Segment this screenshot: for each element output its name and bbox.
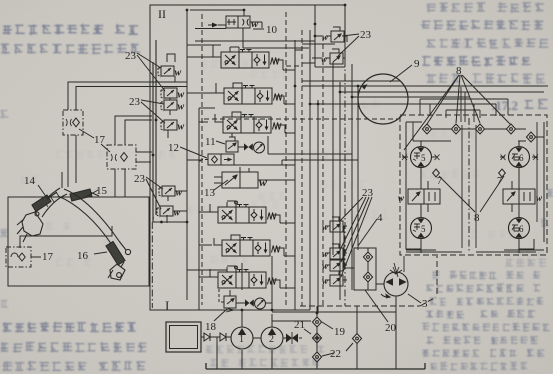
wire x187 <box>186 10 188 300</box>
ghost bleed 10 <box>20 175 38 184</box>
ghost bleed 9 <box>56 151 105 159</box>
ghost text BR6 <box>426 336 538 344</box>
line y92 <box>340 91 544 93</box>
ghost text TR3 <box>427 38 549 48</box>
leader 16 <box>94 252 107 254</box>
ghost text LE1 <box>0 111 8 119</box>
relief valve 18 <box>219 288 236 312</box>
check diamond bm2 <box>499 169 506 177</box>
ghost bleed x201 <box>45 222 70 230</box>
check diamond d4 <box>356 306 358 369</box>
ghost text BR2 <box>426 284 540 293</box>
ghost text RM5 <box>541 218 549 227</box>
ghost text RM4 <box>505 258 546 266</box>
wire pump1 riser <box>241 263 243 327</box>
ghost bleed 5 <box>350 211 389 220</box>
ghost text BM1 <box>206 345 325 354</box>
pilot valve p3 <box>161 100 185 113</box>
ghost text LE3 <box>0 229 8 236</box>
ghost text RM2 <box>0 0 1 1</box>
valve VA <box>221 50 279 69</box>
ghost bleed x301 <box>159 150 195 159</box>
ghost text LE4 <box>1 300 8 307</box>
ghost bleed 6 <box>331 100 380 109</box>
manifold line y312 <box>272 311 396 313</box>
dashdot left low <box>151 222 153 308</box>
check diamond rb4 <box>506 124 515 134</box>
right box top nested pipes <box>420 87 508 122</box>
ghost text BR1 <box>432 271 540 280</box>
gauge top <box>254 142 265 153</box>
ghost text TL2 <box>1 43 140 54</box>
pilot valve p6 <box>157 206 181 219</box>
travel motor R top <box>500 147 538 168</box>
line y154 to right <box>268 136 352 154</box>
tank drop <box>217 296 396 369</box>
wire p-column joins <box>167 54 187 223</box>
ghost bleed x203 <box>103 238 121 246</box>
swing motor 3 <box>381 263 408 298</box>
ghost bleed 11 <box>200 60 250 69</box>
valve block outer box <box>150 5 345 310</box>
excavator boom <box>17 188 131 280</box>
d2 cross <box>314 335 321 342</box>
ghost text BR8 <box>430 362 527 370</box>
wire x358 <box>357 86 359 250</box>
leader 19 <box>322 322 333 329</box>
wire x199 <box>198 108 200 310</box>
fan 23L1 <box>137 53 165 91</box>
ghost bleed 7 <box>460 40 507 49</box>
dashed jog <box>286 65 302 67</box>
wire q feeds <box>302 5 345 67</box>
label 10 <box>250 24 278 36</box>
leader 11 <box>216 141 225 144</box>
ghost bleed 3 <box>470 230 526 238</box>
ghost bleed x302 <box>187 206 226 214</box>
ghost text BL3 <box>3 361 146 371</box>
motor3 wires <box>376 283 384 285</box>
valve VD stubs <box>210 201 280 223</box>
valve 13 <box>214 167 268 189</box>
ghost bleed x305 <box>250 70 289 79</box>
leader 3 <box>408 294 421 303</box>
brake valve L <box>398 168 440 218</box>
brake valve R <box>503 168 543 218</box>
boom cylinder 14 <box>32 195 51 212</box>
valve VE stubs <box>214 235 284 256</box>
ghost text BM2 <box>210 358 320 367</box>
leader 13 <box>214 180 228 190</box>
pilot valve m4 <box>322 271 347 286</box>
wire x352 <box>351 64 353 290</box>
ghost text TR2 <box>421 20 543 30</box>
valve VA stubs <box>213 45 283 70</box>
supply line x156 <box>155 40 157 215</box>
leader 4 <box>358 219 377 246</box>
return line bottom <box>206 363 425 369</box>
ghost bleed 4 <box>430 131 476 139</box>
ghost text RM1 <box>0 0 1 1</box>
fan 8 mid <box>439 176 504 212</box>
ghost text BR7 <box>422 349 544 358</box>
wire top to q1 <box>308 5 345 8</box>
travel motor R bottom <box>509 218 530 239</box>
gauge bottom <box>255 298 266 309</box>
leader 14 <box>38 185 47 198</box>
pilot valve m1 <box>322 217 347 232</box>
check diamond d4b <box>352 334 361 344</box>
valve VC stubs <box>215 112 285 133</box>
ghost text BL2 <box>0 342 146 352</box>
excavator box <box>8 197 149 286</box>
line y104 <box>310 103 462 105</box>
travel motor L bottom <box>411 218 432 239</box>
check diamond rb1 <box>422 124 431 134</box>
wire 17b drop <box>61 172 63 188</box>
pilot valve p2 <box>161 88 185 101</box>
valve VC <box>223 115 281 134</box>
ghost bleed x303 <box>258 192 287 201</box>
coupler b <box>220 333 226 341</box>
bucket left <box>17 212 43 242</box>
leader 17 top <box>79 129 110 152</box>
valve feed wires left bus <box>187 45 227 277</box>
circle 9 <box>358 74 408 124</box>
valve 12 block <box>198 154 234 165</box>
valve V10 <box>208 10 262 30</box>
ghost bleed 0 <box>301 150 351 159</box>
ghost text BR5 <box>422 323 550 331</box>
check diamond bm1 <box>433 169 440 177</box>
wire x295 <box>294 40 296 310</box>
wire 11 to gauge <box>238 146 254 148</box>
ghost bleed x304 <box>210 255 249 263</box>
leader 17 bottom <box>31 256 41 258</box>
stick cylinder 15 <box>70 189 92 201</box>
valve block inner top line <box>190 10 315 48</box>
bucket 2 <box>108 264 125 280</box>
right box inner verticals <box>406 122 537 252</box>
subplate wires <box>344 226 368 290</box>
dash-dot column x345 <box>344 60 346 306</box>
ghost text BR4 <box>426 310 535 319</box>
check diamond rb5 <box>526 132 535 142</box>
pump link <box>253 337 261 339</box>
ghost bleed 8 <box>505 249 544 257</box>
leader 21 <box>304 329 311 334</box>
line y97 <box>352 96 470 98</box>
leader 9 <box>390 65 412 82</box>
right box dashed <box>400 115 547 255</box>
fan 23TR <box>338 34 359 56</box>
ghost bleed 1 <box>320 180 367 189</box>
wires 17 boxes to block <box>20 116 152 248</box>
pilot dashed line y119 <box>204 118 398 120</box>
wire motor3 to box <box>403 256 405 272</box>
pilot valve p4 <box>161 120 185 133</box>
dipper arm <box>58 189 119 245</box>
valve VB stubs <box>216 83 284 104</box>
ghost text TR4 <box>422 56 530 67</box>
valve VF stubs <box>210 266 280 288</box>
ghost bleed 2 <box>421 170 481 179</box>
fan 23L3 <box>146 177 163 209</box>
wire x340 <box>339 82 341 300</box>
motor bottom wires <box>406 239 544 253</box>
pump 2 <box>261 327 283 349</box>
leader 15 <box>86 190 98 197</box>
leader 22 <box>322 343 353 356</box>
pilot box 17a <box>63 110 83 135</box>
ghost bleed 12 <box>240 200 279 209</box>
valve VB <box>224 86 282 105</box>
right bus jogs <box>295 50 340 223</box>
bowtie valve after 11 <box>244 143 253 150</box>
wires 17a feeds <box>68 82 187 187</box>
pump2 side bowtie <box>283 337 302 339</box>
check diamond s2 <box>363 272 372 282</box>
fan 23 mid <box>339 197 372 277</box>
pilot valve p1 <box>158 66 182 79</box>
ghost text TL1 <box>3 24 139 36</box>
ghost text RM3 <box>547 189 553 197</box>
bowtie valve bottom <box>245 299 254 306</box>
pilot valve q1 <box>322 27 347 42</box>
main pressure line y81 <box>302 80 400 82</box>
ghost text BR3 <box>430 297 543 306</box>
coupler a <box>204 333 210 341</box>
pilot box 17c <box>6 247 31 267</box>
dashed column x202 <box>201 14 203 305</box>
wire x318 <box>317 100 319 313</box>
valve VF <box>218 270 276 289</box>
arrowhead on circle <box>362 85 367 89</box>
dashed column x302 <box>301 30 303 306</box>
supply line x153 <box>152 62 154 222</box>
junction dot q <box>314 35 317 38</box>
ghost text TR5 <box>426 73 545 84</box>
wire x333 <box>332 62 334 255</box>
leader 18 <box>214 309 227 321</box>
right box pipes right <box>485 122 544 242</box>
leader 12 <box>180 147 207 158</box>
fan 8 top <box>404 75 510 150</box>
wire pump2 riser <box>271 256 273 327</box>
pump2 jog <box>272 320 311 322</box>
ghost text BL1 <box>3 322 136 333</box>
line y160 to right <box>282 160 358 165</box>
check diamond rb3 <box>475 124 484 134</box>
pilot valve m3 <box>322 260 347 271</box>
ghost text TR1 <box>427 2 544 13</box>
wire relief to gauge <box>236 302 272 304</box>
tank <box>166 322 201 352</box>
dashed column x280 <box>285 12 287 305</box>
pump 1 <box>231 327 253 349</box>
leader 20 <box>365 290 388 322</box>
check diamond s1 <box>363 252 372 262</box>
ghost text LE2 <box>0 0 1 1</box>
valve VD <box>218 205 276 224</box>
wire tank to pump <box>201 336 231 338</box>
fan 23L2 <box>141 100 165 123</box>
right box pipes left <box>406 122 475 242</box>
valve block bottom dashdot <box>300 256 437 306</box>
valve out steps right <box>221 70 295 288</box>
ghost bleed x202 <box>55 259 91 267</box>
pilot valve p5 <box>159 186 183 199</box>
wire excavator to valves <box>115 168 154 218</box>
bucket cylinder 16 <box>106 242 125 266</box>
diamond wires <box>316 306 318 352</box>
pilot valve m2 <box>322 244 347 259</box>
check diamond d2 <box>312 333 321 343</box>
valve VE <box>222 238 280 257</box>
pilot valve q2 <box>321 49 345 64</box>
pilot box 17b <box>107 145 136 169</box>
wire p6 out <box>153 221 187 223</box>
dashed column x323 <box>322 36 324 306</box>
right box center divider <box>468 118 470 252</box>
subplate box <box>354 248 376 290</box>
check diamond d3 <box>312 352 321 362</box>
boom hatches <box>44 192 60 207</box>
travel motor L top <box>402 147 440 168</box>
wire x310 <box>309 30 311 310</box>
check diamond d1 <box>312 317 321 327</box>
unloading valve 11 assembly <box>226 133 238 152</box>
ghost text TRH <box>525 100 548 109</box>
check diamond rb2 <box>451 124 460 134</box>
main pressure line y86 <box>302 85 548 87</box>
